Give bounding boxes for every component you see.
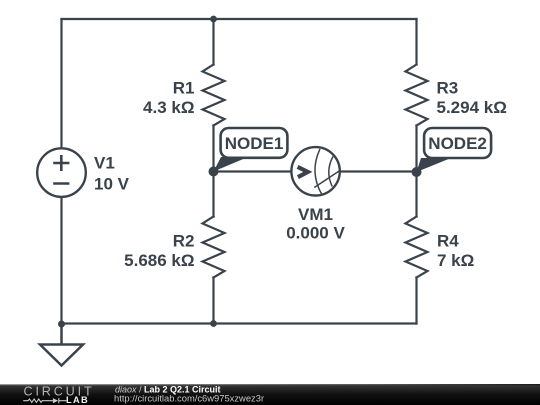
node A dot (NODE1) [209, 167, 219, 177]
resistor R1 [203, 65, 225, 126]
resistor R3 [406, 65, 428, 126]
svg-text:http://circuitlab.com/c6w975xz: http://circuitlab.com/c6w975xzwez3r [114, 392, 264, 403]
svg-text:LAB: LAB [66, 395, 89, 405]
resistor R2 [203, 217, 225, 278]
wire right vertical between R3 and node [415, 126, 417, 217]
wire middle vertical upper [212, 19, 214, 65]
svg-text:NODE1: NODE1 [225, 134, 284, 153]
resistor R4 [406, 217, 428, 278]
junction dot bottom middle [210, 320, 217, 327]
wire top horizontal [62, 18, 417, 20]
wire voltmeter horizontal [214, 170, 417, 172]
wire bottom horizontal [62, 322, 417, 324]
NODE2 callout tail [417, 158, 452, 172]
VM1 meter dial arcs and needle [315, 149, 322, 195]
svg-text:NODE2: NODE2 [428, 134, 487, 153]
V1 plus terminal mark [53, 162, 69, 165]
svg-text:10 V: 10 V [94, 174, 130, 193]
wire right vertical lower [415, 278, 417, 324]
svg-text:R3: R3 [437, 79, 459, 98]
svg-text:VM1: VM1 [298, 205, 333, 224]
svg-text:0.000 V: 0.000 V [286, 224, 345, 243]
svg-text:V1: V1 [94, 154, 115, 173]
svg-text:R4: R4 [437, 231, 459, 250]
svg-text:R2: R2 [173, 231, 195, 250]
node B dot (NODE2) [412, 167, 422, 177]
voltmeter VM1 [291, 147, 339, 195]
CircuitLab logo resistor-diode glyph [23, 398, 66, 403]
voltage source V1 [37, 148, 86, 197]
ground triangle [40, 345, 83, 366]
node NODE2 callout [417, 128, 492, 172]
footer bar [0, 384, 540, 405]
wire right vertical upper [415, 19, 417, 65]
VM1 V-chevron mark [298, 167, 308, 177]
node NODE1 callout [214, 128, 288, 172]
svg-text:5.686 kΩ: 5.686 kΩ [124, 251, 194, 270]
junction dot bottom left [58, 321, 65, 328]
svg-text:7 kΩ: 7 kΩ [437, 251, 474, 270]
svg-text:R1: R1 [173, 79, 195, 98]
ground [40, 324, 83, 366]
NODE1 callout tail [214, 157, 249, 172]
svg-text:4.3 kΩ: 4.3 kΩ [143, 98, 194, 117]
wire middle vertical between R1 and node [212, 126, 214, 217]
junction dot top middle [210, 16, 217, 23]
svg-text:5.294 kΩ: 5.294 kΩ [437, 98, 507, 117]
wire left vertical [60, 19, 62, 324]
wire middle vertical lower [212, 278, 214, 324]
V1 minus terminal mark [53, 182, 69, 185]
